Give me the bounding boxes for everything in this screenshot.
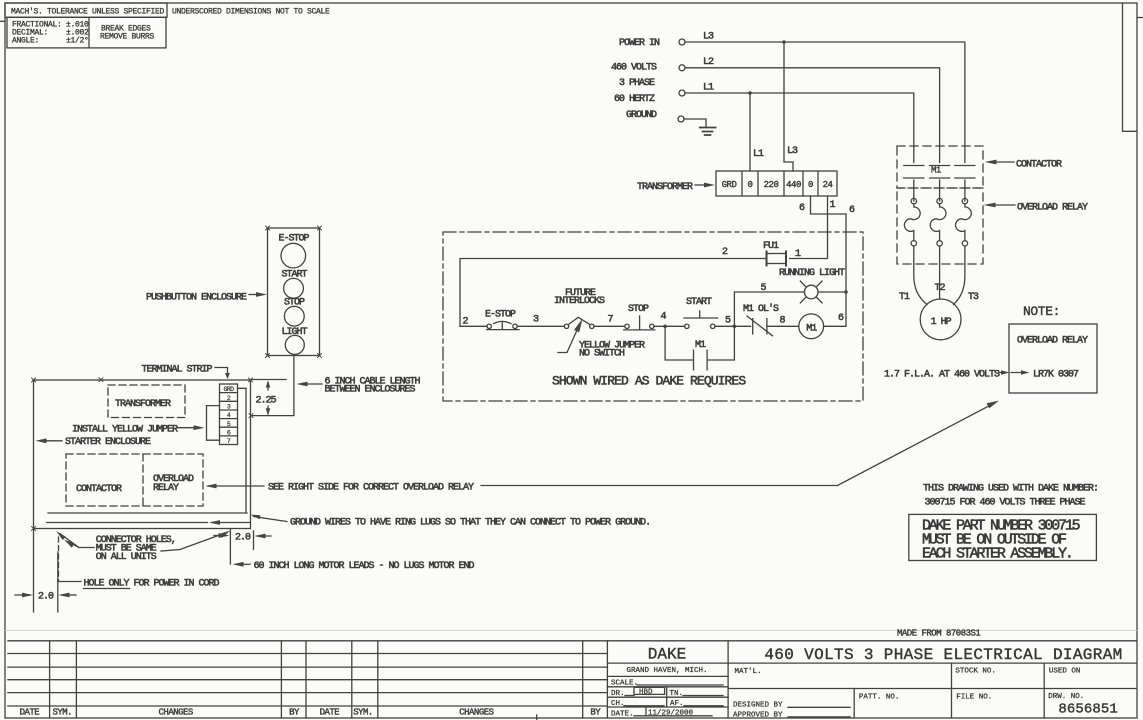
motor lead T2 [939, 264, 941, 299]
terminal ground [678, 116, 684, 122]
starter enclosure box [34, 380, 251, 529]
svg-text:RUNNING LIGHT: RUNNING LIGHT [779, 268, 845, 279]
junction lamp node6 [844, 290, 848, 294]
faint scan line above title area [5, 630, 1137, 632]
terminal L1 [679, 90, 685, 96]
hole LIGHT [285, 335, 304, 354]
svg-text:GRD: GRD [224, 386, 235, 393]
label 60 inch motor leads with leader [236, 563, 250, 565]
wire L3 to transformer 440 [784, 42, 793, 171]
ground wire 2 inside enclosure [47, 522, 208, 524]
svg-text:DAKE: DAKE [648, 646, 686, 664]
pushbutton enclosure box [268, 228, 320, 356]
contactor pole 1 [904, 166, 924, 202]
wire stop to node4 [654, 325, 685, 327]
svg-text:INTERLOCKS: INTERLOCKS [554, 296, 605, 307]
ground wire from GRD terminal [238, 388, 247, 513]
svg-text:PUSHBUTTON ENCLOSURE: PUSHBUTTON ENCLOSURE [146, 293, 247, 304]
svg-text:SEE RIGHT SIDE FOR CORRECT OVE: SEE RIGHT SIDE FOR CORRECT OVERLOAD RELA… [268, 483, 474, 494]
svg-text:3: 3 [533, 315, 539, 326]
svg-text:POWER IN: POWER IN [619, 38, 660, 49]
wire node 2 fuse to rung [460, 259, 767, 327]
svg-text:8656851: 8656851 [1058, 702, 1118, 718]
wire L1 [685, 93, 914, 163]
svg-text:USED ON: USED ON [1049, 668, 1081, 676]
svg-text:DATE.: DATE. [611, 710, 634, 718]
border zone strip top-right [1123, 3, 1137, 131]
running light lamp [804, 285, 818, 299]
motor 1 HP [920, 299, 961, 340]
svg-text:NO SWITCH: NO SWITCH [579, 349, 625, 360]
svg-text:APPROVED BY: APPROVED BY [733, 711, 783, 719]
svg-text:LR7K 0307: LR7K 0307 [1033, 370, 1079, 381]
svg-text:DESIGNED BY: DESIGNED BY [733, 702, 783, 710]
tolerance header box [5, 3, 167, 17]
svg-text:UNDERSCORED DIMENSIONS NOT TO: UNDERSCORED DIMENSIONS NOT TO SCALE [172, 8, 330, 17]
svg-text:BY: BY [590, 708, 601, 718]
svg-text:3 PHASE: 3 PHASE [619, 78, 655, 89]
svg-text:460 VOLTS 3 PHASE ELECTRICAL D: 460 VOLTS 3 PHASE ELECTRICAL DIAGRAM [764, 646, 1122, 664]
svg-text:BETWEEN ENCLOSURES: BETWEEN ENCLOSURES [325, 384, 416, 395]
svg-text:L1: L1 [703, 83, 714, 94]
svg-text:STARTER ENCLOSURE: STARTER ENCLOSURE [65, 437, 151, 448]
overload heater pole 1 [911, 198, 916, 203]
transformer terminal block [716, 171, 837, 196]
svg-text:INSTALL YELLOW JUMPER: INSTALL YELLOW JUMPER [72, 425, 178, 436]
svg-text:DRW. NO.: DRW. NO. [1048, 693, 1084, 701]
hole START [284, 278, 304, 298]
svg-text:PATT. NO.: PATT. NO. [859, 694, 900, 702]
title block company cell [607, 662, 1136, 664]
svg-text:TRANSFORMER: TRANSFORMER [637, 182, 693, 193]
svg-text:M1: M1 [695, 340, 706, 351]
hole STOP [284, 306, 304, 326]
wire rung node2 to estop [460, 325, 487, 327]
tolerance detail box [7, 17, 166, 48]
cable between enclosures [251, 356, 294, 416]
label see right side with leader [208, 485, 264, 487]
wire OL to coil [767, 325, 799, 327]
hole E-STOP [281, 243, 306, 268]
wire ground [684, 119, 706, 127]
svg-text:MADE FROM 87083S1: MADE FROM 87083S1 [897, 629, 980, 639]
svg-text:460 VOLTS: 460 VOLTS [611, 63, 657, 74]
label hole only for power [59, 581, 81, 583]
svg-text:RELAY: RELAY [153, 483, 179, 494]
svg-text:DATE: DATE [20, 708, 40, 718]
svg-text:GRAND HAVEN, MICH.: GRAND HAVEN, MICH. [626, 667, 707, 675]
svg-text:SYM.: SYM. [52, 708, 72, 718]
svg-text:TRANSFORMER: TRANSFORMER [115, 399, 171, 410]
coil M1 [799, 314, 824, 339]
svg-text:M1: M1 [931, 166, 941, 176]
svg-text:ANGLE: ±1/2°: ANGLE: ±1/2° [12, 37, 89, 46]
contactor pole 3 [955, 166, 975, 202]
svg-text:24: 24 [823, 180, 833, 190]
aux contact M1 branch [665, 326, 734, 360]
svg-text:2.0: 2.0 [235, 533, 251, 544]
border tick right [1137, 17, 1143, 19]
note box overload relay [1009, 324, 1097, 393]
svg-text:TERMINAL STRIP: TERMINAL STRIP [142, 365, 213, 376]
svg-text:60 INCH LONG MOTOR LEADS - NO: 60 INCH LONG MOTOR LEADS - NO LUGS MOTOR… [254, 561, 475, 572]
svg-text:CHANGES: CHANGES [459, 708, 493, 718]
svg-text:T3: T3 [968, 292, 979, 303]
svg-text:7: 7 [608, 315, 614, 326]
svg-text:SYM.: SYM. [353, 708, 373, 718]
svg-text:BY: BY [289, 708, 300, 718]
border tick left [0, 20, 5, 22]
wire start to node5 [715, 325, 751, 327]
svg-text:8: 8 [780, 316, 786, 327]
running light branch node5 [734, 292, 804, 326]
terminal L2 [679, 65, 685, 71]
svg-text:MAT'L.: MAT'L. [735, 668, 762, 676]
wire coil to node6 [824, 292, 846, 326]
junction node 5 [733, 325, 737, 329]
svg-text:2: 2 [722, 247, 728, 258]
transformer dashed box [108, 385, 185, 418]
wire L1 to transformer 0 [749, 93, 751, 171]
corner tick marks [32, 226, 322, 531]
wire lamp to node6 [818, 291, 846, 293]
overload heater pole 2 [937, 198, 942, 203]
svg-text:START: START [686, 297, 712, 308]
svg-text:L1: L1 [753, 149, 764, 160]
contactor dashed box [66, 454, 203, 506]
junction L1 drop [748, 91, 752, 95]
border tick bottom [536, 715, 538, 720]
junction L3 drop [782, 40, 786, 44]
contactor M1 dashed box [897, 146, 983, 188]
svg-text:ON ALL UNITS: ON ALL UNITS [96, 552, 157, 563]
revision table grid [8, 640, 1137, 642]
leader arrow to transformer [695, 184, 704, 186]
dimension 2.0 right [214, 535, 226, 537]
control enclosure dashed box [443, 232, 863, 401]
svg-text:REMOVE BURRS: REMOVE BURRS [100, 33, 155, 42]
ground wire 1 inside enclosure [48, 512, 247, 514]
svg-text:6: 6 [838, 313, 844, 324]
svg-text:4: 4 [661, 312, 667, 323]
svg-text:MACH'S. TOLERANCE UNLESS SPECI: MACH'S. TOLERANCE UNLESS SPECIFIED [11, 8, 165, 17]
leader connector holes right [161, 533, 227, 552]
svg-text:6: 6 [849, 205, 855, 216]
svg-text:L3: L3 [787, 146, 798, 157]
svg-text:GRD: GRD [722, 180, 737, 190]
svg-text:NOTE:: NOTE: [1023, 304, 1060, 319]
svg-text:0: 0 [808, 180, 813, 190]
svg-text:OVERLOAD RELAY: OVERLOAD RELAY [1017, 203, 1088, 214]
power in hole dashed leader [58, 537, 60, 581]
svg-text:L2: L2 [703, 57, 714, 68]
svg-text:6: 6 [799, 203, 805, 214]
dimension 2.0 left [34, 529, 58, 613]
svg-text:OVERLOAD RELAY: OVERLOAD RELAY [1017, 336, 1088, 347]
wire estop to interlock [517, 325, 564, 327]
svg-text:300715 FOR 460 VOLTS THREE PHA: 300715 FOR 460 VOLTS THREE PHASE [925, 498, 1086, 509]
ground symbol [700, 128, 716, 136]
svg-text:STOP: STOP [628, 304, 649, 315]
overload heater pole 3 [962, 198, 967, 203]
svg-text:SHOWN WIRED AS DAKE REQUIRES: SHOWN WIRED AS DAKE REQUIRES [552, 374, 746, 389]
wire L3 [685, 42, 965, 163]
terminal strip 7 pos [220, 384, 238, 445]
svg-text:DATE: DATE [320, 708, 340, 718]
svg-text:CHANGES: CHANGES [159, 708, 193, 718]
contactor pole 2 [930, 166, 950, 202]
motor lead T1 [914, 264, 927, 305]
svg-text:M1: M1 [806, 324, 817, 335]
wire node 6 from secondary 0 [811, 196, 847, 292]
wire L2 [685, 68, 940, 163]
svg-text:1: 1 [830, 200, 836, 211]
motor lead T3 [954, 264, 965, 305]
svg-text:220: 220 [764, 180, 779, 190]
svg-text:T2: T2 [935, 283, 946, 294]
svg-text:EACH STARTER ASSEMBLY.: EACH STARTER ASSEMBLY. [922, 546, 1072, 563]
svg-text:5: 5 [725, 316, 731, 327]
junction node 4 [663, 325, 667, 329]
svg-text:CONTACTOR: CONTACTOR [1016, 160, 1062, 171]
wire interlock to stop [594, 325, 625, 327]
svg-text:HBD: HBD [639, 688, 653, 696]
overload relay dashed divider [142, 454, 144, 506]
svg-text:THIS DRAWING USED WITH DAKE NU: THIS DRAWING USED WITH DAKE NUMBER: [923, 484, 1098, 495]
svg-text:E-STOP: E-STOP [485, 310, 516, 321]
svg-text:GROUND: GROUND [626, 110, 657, 121]
svg-text:440: 440 [786, 180, 801, 190]
svg-text:L3: L3 [703, 32, 714, 43]
svg-text:LIGHT: LIGHT [282, 327, 308, 338]
svg-text:FILE NO.: FILE NO. [956, 694, 992, 702]
overload relay dashed box [897, 188, 983, 264]
svg-text:CONTACTOR: CONTACTOR [76, 484, 122, 495]
svg-text:GROUND WIRES TO HAVE RING LUGS: GROUND WIRES TO HAVE RING LUGS SO THAT T… [290, 518, 650, 529]
fuse FU1 [767, 254, 787, 264]
leaders connector holes left [61, 534, 95, 548]
svg-text:1.7 F.L.A. AT 460 VOLTS: 1.7 F.L.A. AT 460 VOLTS [884, 370, 1000, 381]
yellow jumper bracket terminals 3-7 [207, 406, 220, 441]
svg-text:60 HERTZ: 60 HERTZ [614, 94, 655, 105]
svg-text:STOCK NO.: STOCK NO. [955, 668, 996, 676]
dake part number box [909, 514, 1097, 560]
connector hole leader line [229, 529, 231, 565]
long arrow to note box [838, 404, 994, 486]
svg-text:FU1: FU1 [763, 241, 779, 252]
svg-text:1 HP: 1 HP [931, 317, 952, 328]
wire node 1 from secondary 24 [790, 196, 828, 259]
dimension 2.25 [252, 380, 287, 415]
svg-text:2.0: 2.0 [38, 592, 54, 603]
terminal L3 [679, 39, 685, 45]
svg-text:T1: T1 [899, 292, 910, 303]
svg-text:0: 0 [748, 180, 753, 190]
svg-text:2.25: 2.25 [256, 396, 277, 407]
svg-text:M1 OL'S: M1 OL'S [743, 303, 779, 315]
